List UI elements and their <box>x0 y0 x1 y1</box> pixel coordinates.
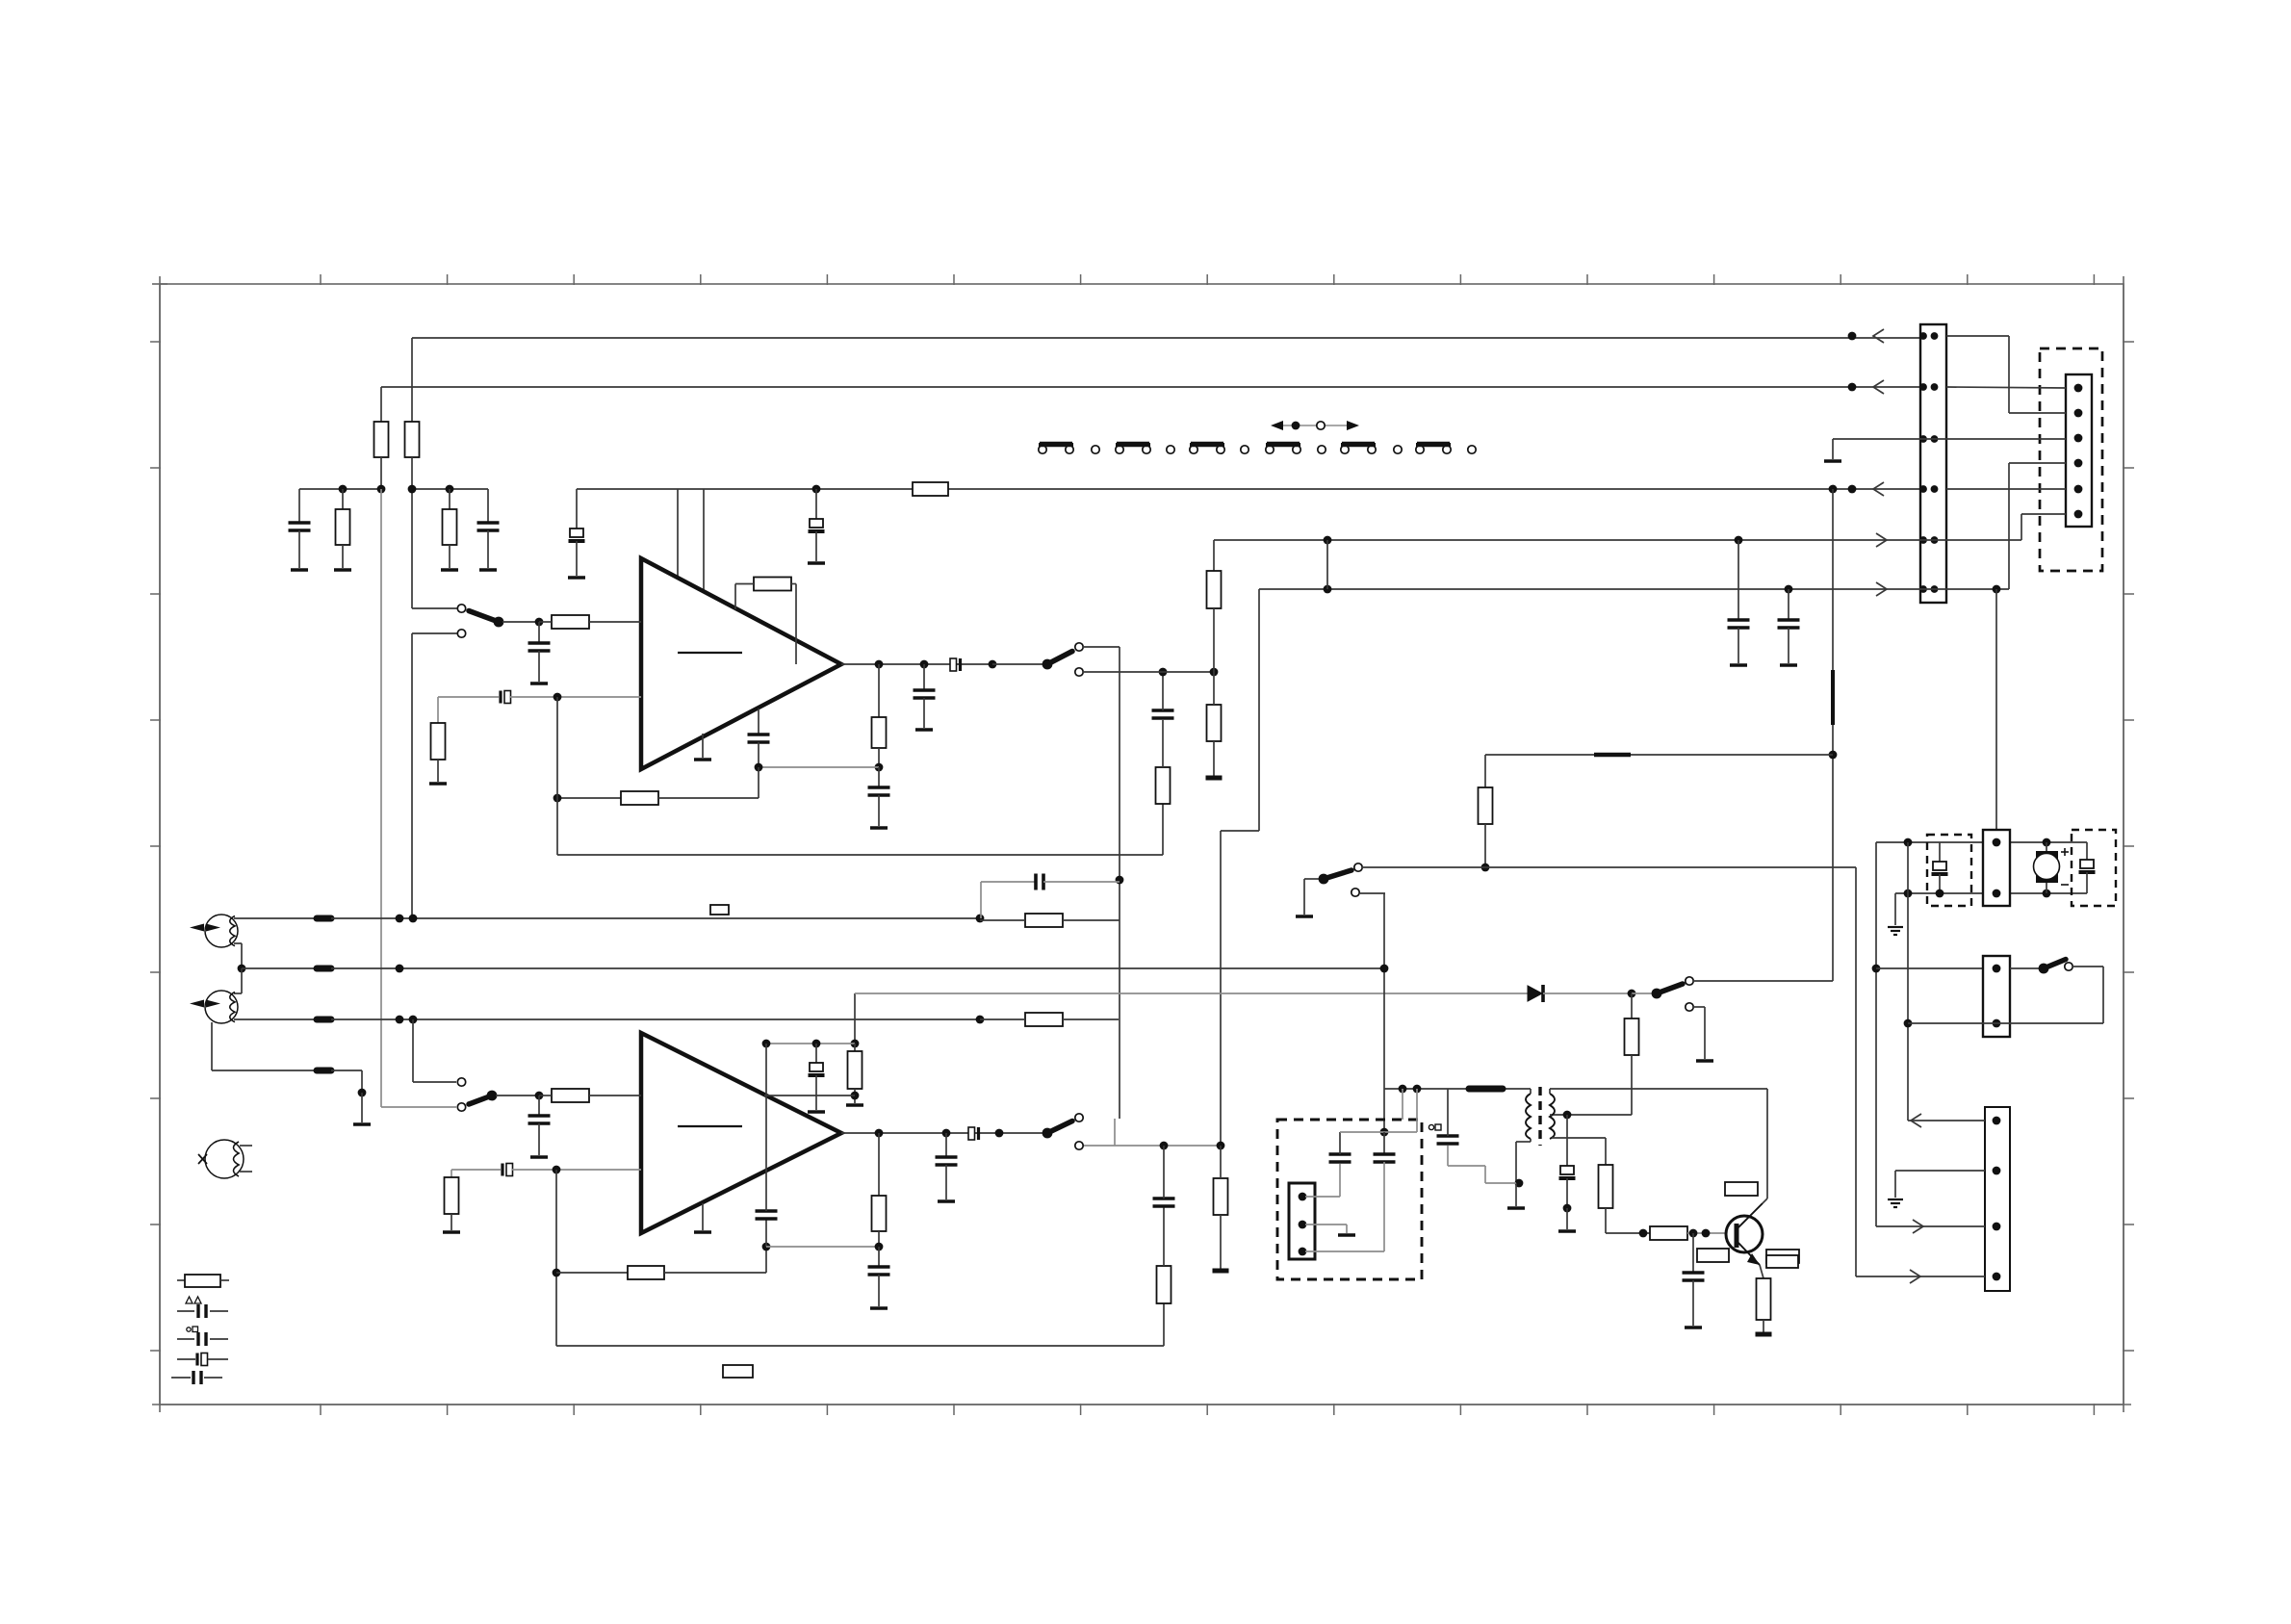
wire CN6 p4 wire <box>1856 1276 1985 1277</box>
wire fb gray link <box>759 766 879 768</box>
capacitor C23 <box>1437 1134 1459 1138</box>
wire fb row b <box>658 797 759 799</box>
node supply2-a <box>851 1040 860 1048</box>
wire C23 right lead <box>1448 1165 1485 1167</box>
terminal C12 <box>1730 663 1747 667</box>
resistor R1 <box>374 422 389 457</box>
wire C14 right lead <box>1043 881 1120 883</box>
wire C24 top lead <box>1566 1115 1568 1166</box>
switch S6 throw2 <box>1686 1003 1693 1011</box>
wire C17 top lead <box>765 1178 767 1211</box>
wire net-B long drop <box>380 489 382 1107</box>
wire C10 bottom lead <box>758 742 759 767</box>
wire CN3 p3 link <box>1305 1250 1384 1252</box>
wire CN1-CN2 r6 rise <box>2008 463 2010 589</box>
node r1059-a <box>396 1016 404 1024</box>
connector CN2 body <box>2066 374 2092 527</box>
wire T1 prim bottom drop <box>1515 1142 1517 1183</box>
node N2a <box>408 485 417 494</box>
resistor R19 feedback <box>628 1266 664 1279</box>
resistor R23 <box>848 1051 862 1089</box>
node T1 bottom <box>1515 1179 1524 1188</box>
resistor R13 <box>1207 705 1222 741</box>
node fb3 <box>553 1269 561 1277</box>
node rail-a <box>1399 1085 1407 1094</box>
node C24 bottom <box>1563 1204 1572 1213</box>
wire row3 gnd stem <box>1832 439 1834 459</box>
CN5 pin 1 <box>1993 965 2001 973</box>
wire C20 top lead <box>878 1247 880 1267</box>
connector CN1 body <box>1920 324 1946 603</box>
terminal R3 <box>334 568 351 572</box>
resistor R5 on supply row <box>913 482 948 496</box>
wire row5 <box>1214 539 1946 541</box>
wire rec branch stub <box>1114 1119 1116 1146</box>
capacitor C20 <box>868 1265 890 1269</box>
terminal U2 gnd <box>694 1230 711 1234</box>
wire S3 to R17 <box>496 1095 535 1096</box>
connector CN2 shield dashed <box>2040 348 2102 571</box>
terminal R4 <box>441 568 458 572</box>
arrow row2 <box>1873 380 1884 394</box>
resistor R15 <box>1025 914 1063 927</box>
wire C18 top lead <box>1163 1146 1165 1199</box>
CN1 pin 6 right <box>1931 585 1939 593</box>
wire tape line drop x428 <box>411 633 413 918</box>
wire S3 throw1 link <box>413 1081 456 1083</box>
node N1a <box>339 485 348 494</box>
head H2 <box>205 991 238 1023</box>
wire S5 gnd drop <box>1303 879 1305 915</box>
terminal R23 <box>846 1103 863 1107</box>
wire U2 in- drop <box>555 1170 557 1346</box>
wire rec line long <box>1362 866 1856 868</box>
U2 minus marking <box>678 1125 742 1127</box>
CN5 pin 2 <box>1993 1019 2001 1028</box>
node out-b <box>920 660 929 669</box>
node row2 junction <box>1848 383 1857 392</box>
wire row 1112 <box>212 1070 316 1071</box>
wire Q1 collector link <box>1763 1199 1767 1203</box>
wire M1 top lead <box>2046 842 2047 851</box>
label value box L1 <box>1725 1182 1758 1196</box>
switch S1 throw2 <box>457 630 465 637</box>
CN6 pin 4 <box>1993 1273 2001 1281</box>
capacitor C15 <box>528 1114 551 1118</box>
polar marker C23 <box>1429 1124 1433 1129</box>
wire C13 top lead <box>1788 589 1789 620</box>
wire CN1-CN2 r1 b <box>2009 412 2066 414</box>
wire S7 loop a <box>2072 966 2103 967</box>
wire row6 to motor rail <box>1995 589 1997 842</box>
wire C22 bottom lead <box>815 1075 817 1110</box>
wire R3 bottom lead <box>342 545 344 568</box>
node bias-784 <box>1829 751 1838 760</box>
node r954-b <box>409 915 418 923</box>
wire S5 throw2 drop <box>1383 893 1385 1132</box>
wire C12 bottom lead <box>1738 628 1739 663</box>
resistor R6 input <box>552 615 589 629</box>
wire S7 loop b <box>2102 967 2104 1023</box>
node shield <box>358 1089 367 1097</box>
wire R2 bottom lead <box>411 457 413 489</box>
capacitor C5 <box>528 641 551 645</box>
wire R11 top lead <box>1162 720 1164 767</box>
wire R9 bottom lead <box>878 748 880 767</box>
terminal C15 <box>530 1155 548 1159</box>
wire net fb2 long <box>556 1345 1164 1347</box>
CN1 pin 1 right <box>1931 332 1939 340</box>
label value box L4 <box>1766 1255 1798 1268</box>
wire T1 prim bottom lead <box>1530 1139 1532 1142</box>
CN1 pin 6 left <box>1919 585 1927 593</box>
jumper J6 <box>1416 446 1424 453</box>
border tick marks <box>320 274 322 285</box>
jumper pad P5 <box>1394 446 1402 453</box>
wire C21 bottom lead <box>945 1165 947 1199</box>
capacitor C4 <box>810 519 823 528</box>
wire rail stub down <box>1402 1089 1403 1120</box>
wire S6 throw1 out <box>1693 980 1833 982</box>
terminal C21 <box>938 1199 955 1203</box>
node row5 j2 <box>1735 536 1743 545</box>
node supply-C4 <box>812 485 821 494</box>
terminal C2 <box>479 568 497 572</box>
head H3 erase <box>205 1140 244 1178</box>
wire C8 bottom lead <box>878 795 880 826</box>
wire U2 gnd pin <box>702 1203 704 1230</box>
wire supply row2 <box>855 992 1528 994</box>
label value box L6 <box>723 1365 753 1378</box>
wire R1 top lead <box>380 387 382 422</box>
wire M1 bottom lead <box>2046 883 2047 893</box>
node fb1 <box>875 763 884 772</box>
resistor R22 <box>872 1196 887 1231</box>
wire rec line drop <box>1855 867 1857 1276</box>
jumper pad P2 <box>1167 446 1174 453</box>
capacitor C2 <box>477 521 500 525</box>
resistor R25 <box>1599 1165 1613 1208</box>
terminal R21 <box>1213 1269 1229 1274</box>
wire to S6 pole <box>1632 992 1653 994</box>
switch S7 throw <box>2065 963 2072 970</box>
CN1 pin 3 left <box>1919 435 1927 443</box>
capacitor C24 <box>1560 1166 1574 1174</box>
wire bias feed upper <box>1832 489 1834 670</box>
legend capacitor type2 <box>177 1338 194 1340</box>
node out2-a <box>875 1129 884 1138</box>
resistor R16 <box>1025 1013 1063 1026</box>
wire S2 throw1 link <box>1083 646 1120 648</box>
switch S6 lever <box>1657 984 1683 993</box>
node R14-rec <box>1481 864 1490 872</box>
node motor feed <box>1872 965 1881 973</box>
wire row 954 long <box>331 917 980 919</box>
wire to S1 lower throw <box>412 632 457 634</box>
switch S1 pole <box>494 617 504 628</box>
legend capacitor film <box>177 1358 195 1360</box>
capacitor C6 film <box>499 691 502 704</box>
wire H1 top <box>234 917 316 919</box>
transformer T1 primary <box>1526 1094 1531 1139</box>
connector CN3 shield dashed <box>1277 1120 1422 1279</box>
wire row 1006 long <box>331 967 1384 969</box>
wire Q1 collector rail <box>1766 1089 1768 1199</box>
filter FL1 dashed <box>1927 835 1971 906</box>
wire shield drop b <box>361 1093 363 1122</box>
switch S6 pole <box>1652 989 1662 999</box>
switch S3 pole <box>487 1091 498 1101</box>
wire R18 top lead <box>450 1170 452 1177</box>
resistor R18 <box>445 1177 459 1214</box>
wire R15 right lead <box>1063 919 1120 921</box>
wire CN1-CN2 r2 <box>1946 387 2066 388</box>
capacitor C19 film coupling <box>968 1127 975 1140</box>
wire CN3 p1 rise <box>1339 1164 1341 1197</box>
node row6 drop <box>1993 585 2001 594</box>
wire bias rail <box>1384 1088 1531 1090</box>
capacitor C12 <box>1728 618 1750 622</box>
wire R21 top lead <box>1220 1146 1222 1178</box>
wire R20 bottom lead <box>1163 1303 1165 1346</box>
slider widget arrow <box>1274 425 1355 426</box>
arrow CN6 p4 <box>1910 1270 1920 1283</box>
wire R13 bottom lead <box>1213 741 1215 776</box>
wire C2 bottom lead <box>487 530 489 568</box>
terminal R13 <box>1206 776 1223 781</box>
ground motor <box>1888 926 1903 928</box>
CN2 pin 2 <box>2074 409 2083 418</box>
terminal C3 <box>568 576 585 580</box>
wire switch feed <box>1876 967 1983 969</box>
node U1 in+ <box>535 618 544 627</box>
resistor R27 emitter <box>1757 1278 1771 1320</box>
wire shield drop <box>361 1070 363 1093</box>
jumper J5 <box>1341 446 1349 453</box>
arrow row5 <box>1876 533 1887 547</box>
label value box L3 <box>1766 1250 1799 1263</box>
wire supply row2 gray <box>766 1043 855 1044</box>
slider circle <box>1317 422 1325 429</box>
arrow row6 <box>1876 582 1887 596</box>
wire fb2 elbow <box>765 1247 767 1273</box>
wire R20 top lead <box>1163 1206 1165 1266</box>
terminal C1 <box>291 568 308 572</box>
resistor R24 <box>1625 1018 1639 1055</box>
node M1 top <box>2043 838 2051 847</box>
CN4 pin 1 <box>1993 838 2001 847</box>
wire row5 feed corner <box>1213 540 1215 571</box>
wire row6 feeder v <box>1258 589 1260 831</box>
wire C16 right lead <box>512 1169 520 1171</box>
wire base row left <box>1606 1232 1650 1234</box>
node aux-1063 <box>1904 1019 1913 1028</box>
wire R24 top lead <box>1631 993 1633 1018</box>
wire CN1-CN2 r1 drop <box>2008 336 2010 413</box>
node base-c <box>1702 1229 1711 1238</box>
wire R1 bottom lead <box>380 457 382 489</box>
wire C5 top lead <box>538 622 540 643</box>
resistor R12 <box>1207 571 1222 608</box>
wire aux drop <box>1907 893 1909 1121</box>
jumper pad P3 <box>1241 446 1248 453</box>
wire U1 vcc pin a <box>677 489 679 579</box>
wire S2 throw2 row <box>1083 671 1214 673</box>
terminal U1 gnd <box>694 758 711 761</box>
wire rail2 gnd stem <box>1894 893 1896 925</box>
wire net-A top bus <box>412 337 1946 339</box>
wire row3 <box>1833 438 1946 440</box>
wire C23 bottom lead <box>1447 1146 1449 1166</box>
wire R23 top lead <box>854 1044 856 1051</box>
jumper J1 <box>1039 446 1046 453</box>
wire C10 top lead <box>758 709 759 735</box>
wire CN5 p1 to S7 <box>2010 967 2040 969</box>
wire S7 loop c <box>1996 1022 2103 1024</box>
wire CN1-CN2 r6 b <box>2009 462 2066 464</box>
terminal C13 <box>1780 663 1797 667</box>
ground CN6 p2 <box>1888 1199 1903 1200</box>
wire H1 bottom jog <box>234 942 242 944</box>
wire R4 top lead <box>449 489 450 509</box>
wire C4 top lead <box>815 489 817 519</box>
wire R22 bottom lead <box>878 1231 880 1247</box>
terminal C4 <box>808 561 825 565</box>
wire R17 right lead <box>589 1095 641 1096</box>
node row6 j1 <box>1324 585 1332 594</box>
wire CN6 p3 wire <box>1876 1225 1985 1227</box>
label value box L5 <box>710 905 729 915</box>
wire S3 throw1 drop <box>412 1019 414 1082</box>
wire CN6 p2 stem <box>1894 1171 1896 1198</box>
CN3 pin 2 <box>1299 1221 1307 1229</box>
legend capacitor plain <box>171 1377 191 1379</box>
wire H2 top link <box>234 992 242 994</box>
wire R6 left lead <box>539 621 552 623</box>
transformer T1 secondary <box>1550 1094 1555 1139</box>
wire C15 top lead <box>538 1096 540 1116</box>
border frame <box>160 284 2124 1405</box>
CN2 pin 1 <box>2074 384 2083 393</box>
terminal S6 gnd <box>1696 1059 1713 1063</box>
wire S5 pole stem <box>1304 878 1320 880</box>
wire R14 bottom lead <box>1484 824 1486 867</box>
wire R27 bottom lead <box>1763 1320 1764 1332</box>
wire net-B top bus <box>381 386 1946 388</box>
jumper J3 <box>1190 446 1197 453</box>
node base-a <box>1639 1229 1648 1238</box>
node rec-a <box>1160 1142 1169 1150</box>
capacitor C16 film <box>501 1164 503 1176</box>
terminal R18 <box>443 1230 460 1234</box>
resistor R7 <box>431 723 446 760</box>
wire base row right <box>1687 1232 1727 1234</box>
wire C26 top lead <box>1339 1132 1341 1154</box>
wire node N1 row left <box>299 488 381 490</box>
resistor R4 <box>443 509 457 545</box>
wire S6 throw2 link <box>1693 1006 1705 1008</box>
wire CN3 p1 link <box>1305 1196 1340 1198</box>
switch S2 lever <box>1047 652 1072 665</box>
node rail2-a <box>1904 889 1913 898</box>
ferrite bead FB3 <box>317 1017 331 1023</box>
wire fb elbow down <box>758 767 759 798</box>
switch S4 pole <box>1043 1128 1053 1139</box>
wire C25 bottom lead <box>1692 1280 1694 1326</box>
wire R6 leads <box>589 621 641 623</box>
wire play vertical <box>1119 647 1120 1119</box>
wire CN6 p1 wire <box>1908 1120 1985 1121</box>
switch S7 lever <box>2044 960 2066 969</box>
resistor R10 feedback <box>621 791 658 805</box>
terminal T1 gnd <box>1507 1206 1525 1210</box>
node fb2 <box>553 794 562 803</box>
node bias-R <box>1628 990 1636 998</box>
node rail-b <box>1413 1085 1422 1094</box>
wire CN1-CN2 r1 <box>1946 335 2009 337</box>
wire C24 gnd lead <box>1566 1208 1568 1229</box>
capacitor C17 <box>756 1209 778 1213</box>
wire C22 top lead <box>815 1044 817 1063</box>
wire osc row 1158 <box>1552 1114 1632 1116</box>
terminal R7 <box>429 782 447 786</box>
wire net fb long <box>557 854 1163 856</box>
wire U2 output row <box>841 1132 1044 1134</box>
node H1-H2 tie <box>238 965 246 973</box>
U1 minus marking <box>678 652 742 654</box>
resistor R8 feedback <box>754 578 791 591</box>
wire CN6 p2 wire <box>1895 1170 1985 1172</box>
wire H2 shield drop <box>211 1022 213 1070</box>
wire row6 <box>1259 588 1946 590</box>
node U1 in- <box>553 693 562 702</box>
capacitor C18 <box>1153 1197 1175 1200</box>
ferrite bead FB4 <box>317 1068 331 1074</box>
wire CN1-CN2 r5 <box>1946 539 2021 541</box>
terminal CN3 gnd <box>1338 1233 1355 1237</box>
wire rail stub to C26 row <box>1416 1089 1418 1132</box>
wire C15 bottom lead <box>538 1123 540 1155</box>
terminal C5 <box>530 682 548 685</box>
node row5 j1 <box>1324 536 1332 545</box>
switch S5 throw1 <box>1354 864 1362 871</box>
wire C6 left lead <box>438 696 499 698</box>
jumper pad P4 <box>1318 446 1326 453</box>
switch S3 throw2 <box>457 1103 465 1111</box>
wire motor rail1 <box>1876 841 2087 843</box>
wire H1 bottom drop <box>241 943 243 968</box>
capacitor C28 <box>1933 862 1946 870</box>
wire Q1 emitter link <box>1760 1265 1763 1278</box>
wire R24 bottom lead <box>1631 1055 1633 1115</box>
node fb5 <box>875 1243 884 1251</box>
capacitor C9 <box>914 688 936 692</box>
wire C14 left lead <box>981 881 1036 883</box>
capacitor C1 <box>289 521 311 525</box>
CN3 pin 1 <box>1299 1193 1307 1201</box>
switch S2 pole <box>1043 659 1053 670</box>
connector CN4 body <box>1983 830 2010 906</box>
CN1 pin 4 left <box>1919 485 1927 493</box>
wire C11 top lead <box>1162 672 1164 710</box>
node play-fb <box>1116 876 1124 885</box>
wire C26 top row <box>1340 1131 1417 1133</box>
jumper J2 <box>1116 446 1123 453</box>
wire aux link <box>1908 1022 1996 1024</box>
wire diode out <box>1543 992 1632 994</box>
wire C20 bottom lead <box>878 1275 880 1306</box>
wire R7 top lead <box>437 697 439 723</box>
